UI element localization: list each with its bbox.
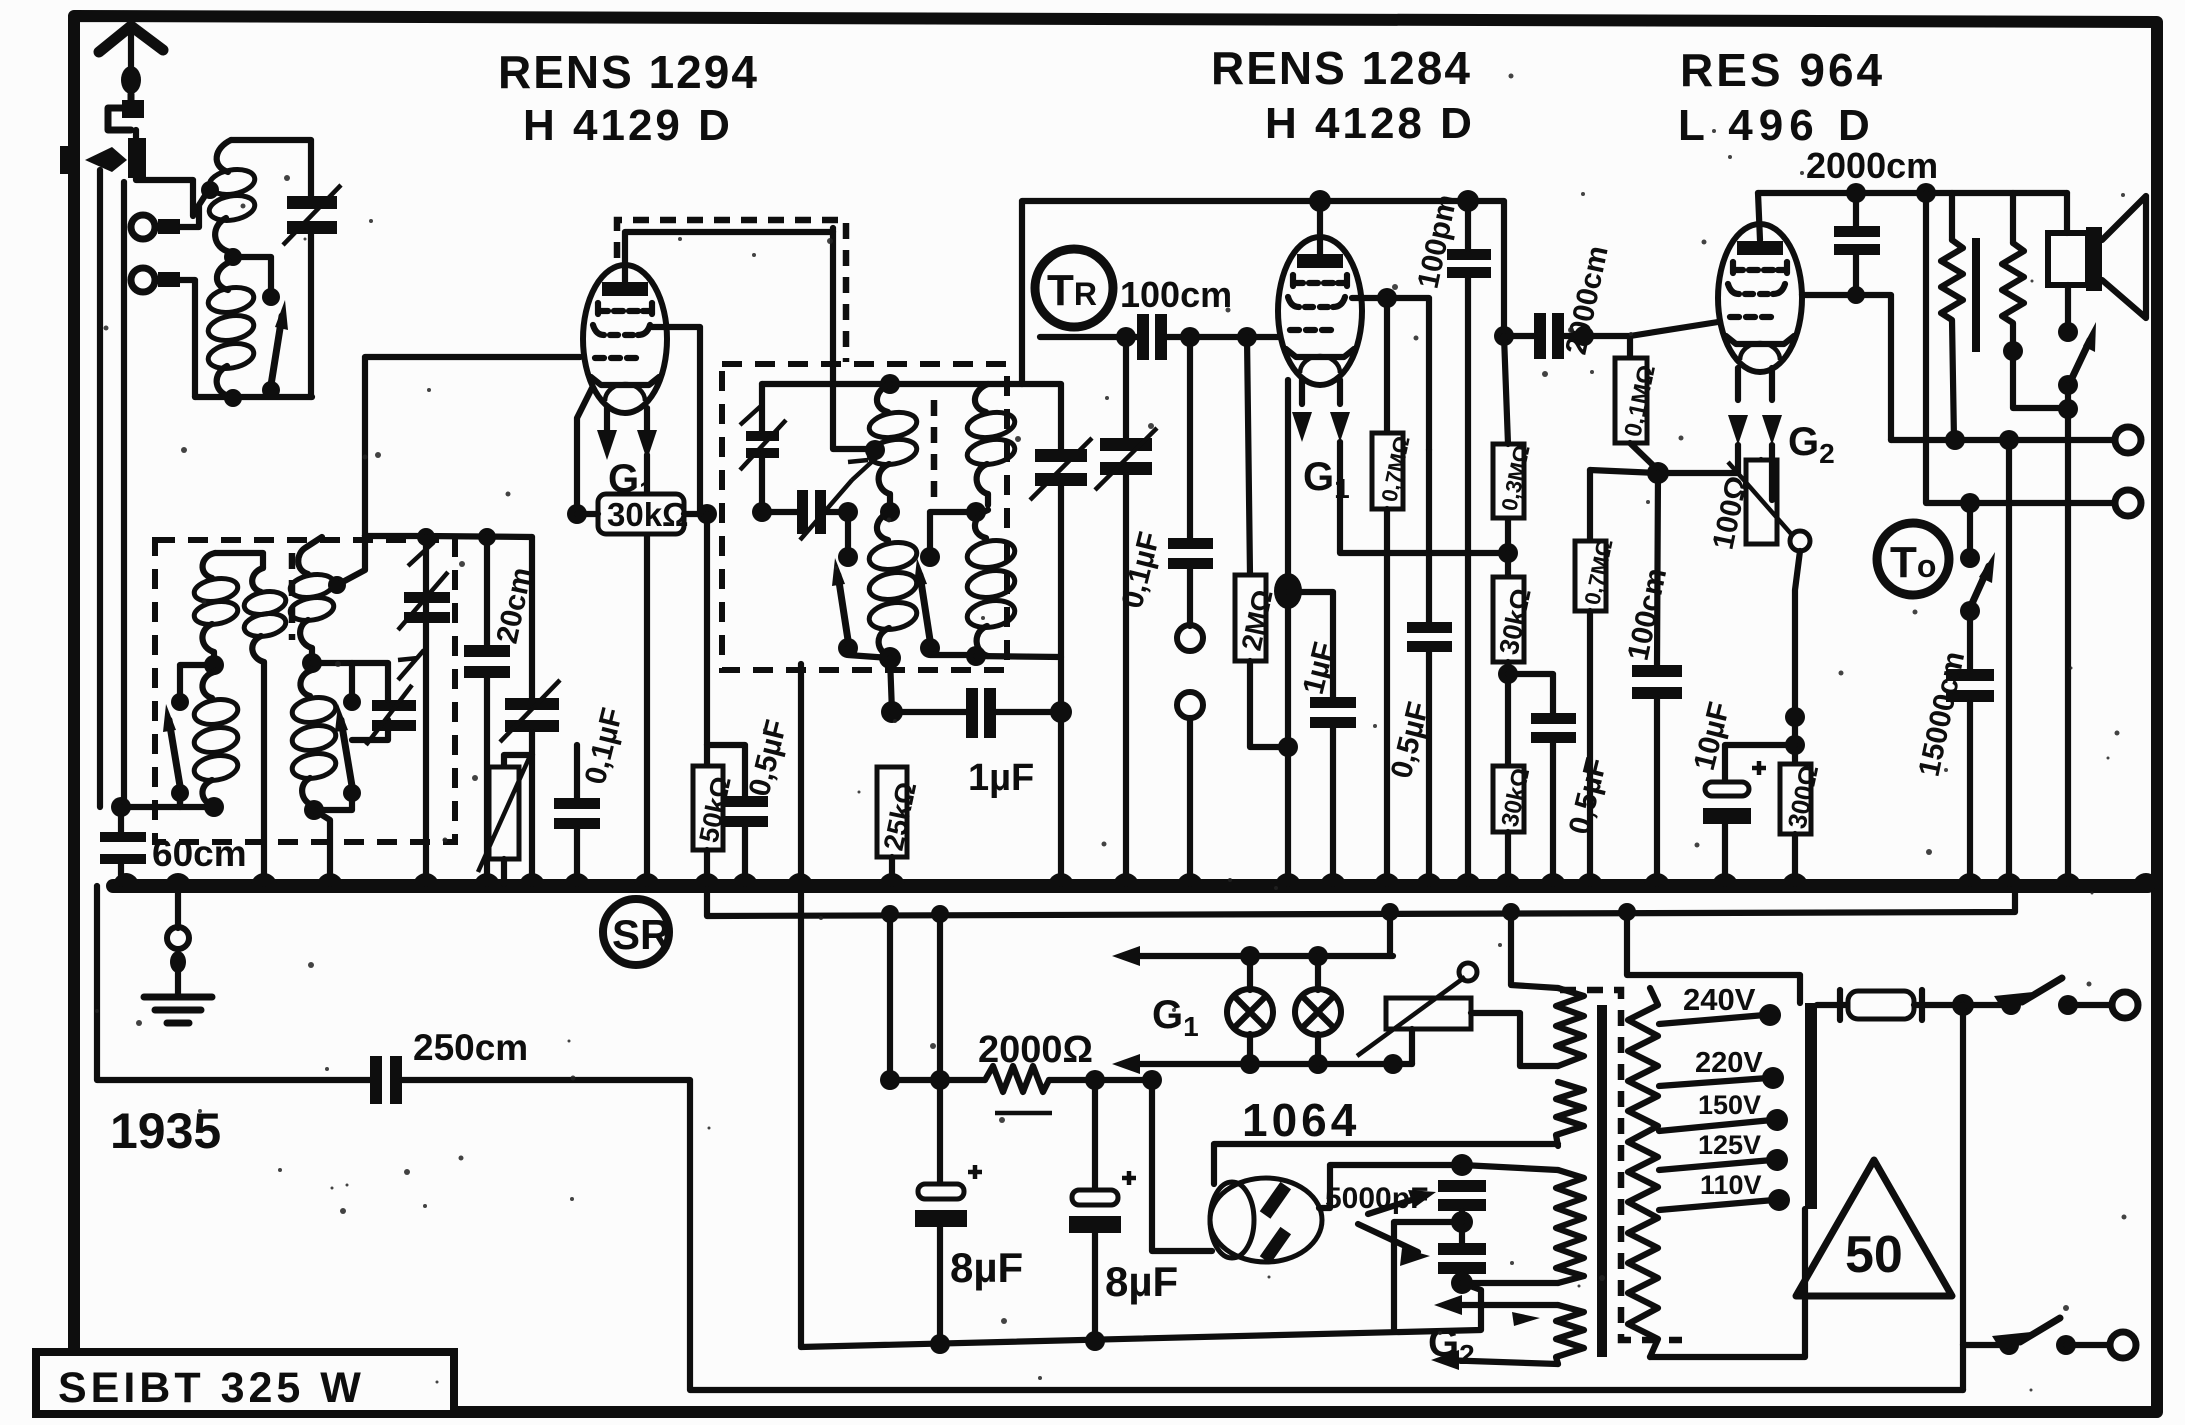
capacitor 0,1uF (tube1 cathode) [554, 745, 600, 884]
resistor 2MOhm [1235, 337, 1288, 747]
node L4 bottom [304, 800, 324, 820]
electrolytic 10uF [1703, 745, 1795, 884]
title label box SEIBT 325 W [36, 1352, 454, 1414]
output choke winding b [2002, 193, 2068, 408]
coil L6 lower [965, 510, 1017, 656]
node grid line V2 b [1237, 327, 1257, 347]
tap 110V [1659, 1170, 1790, 1211]
svg-text:1µF: 1µF [968, 757, 1034, 799]
heater wire top with arrow [1112, 946, 1393, 966]
label To [1877, 523, 1949, 595]
wire 1uF right to bus [1058, 712, 1064, 884]
capacitor 15000cm [1946, 669, 1994, 884]
wire L3 bottom to chassis [204, 797, 224, 817]
rectifier cathode wire [1152, 1080, 1212, 1251]
node L6 bottom [966, 646, 986, 666]
resistor 30kOhm (V1 anode) [577, 494, 700, 534]
node L5 bottom [879, 647, 901, 669]
pickup terminal 1 [1891, 427, 2141, 453]
node gang b top [1116, 327, 1136, 347]
dial lamp 1 [1227, 956, 1273, 1064]
svg-text:2000Ω: 2000Ω [978, 1029, 1093, 1071]
node trimmer right [838, 502, 858, 522]
tube V1 cathode lead left [577, 388, 592, 514]
capacitor 100cm (V3 grid) [1632, 473, 1682, 884]
resistor 2000 Ohm (filter) [890, 1066, 1152, 1113]
tube V3 grid lead [1630, 322, 1718, 336]
capacitor 1uF (osc) [892, 688, 1061, 738]
input coil L1 lower [206, 262, 255, 397]
capacitor 5000pF upper [1438, 1180, 1486, 1243]
oscillator padder variable cap [740, 384, 786, 512]
switch band filter II b [914, 512, 976, 658]
capacitor 2000cm (anode V3) [1834, 193, 1880, 304]
node 5000pF mid [1451, 1211, 1473, 1233]
output transformer core bar [1972, 238, 1980, 352]
feedback tap into oscillator coil [833, 228, 885, 460]
svg-text:8µF: 8µF [1105, 1258, 1178, 1305]
bus junction bumps [113, 873, 2159, 886]
transformer core bar [1597, 1005, 1607, 1357]
svg-text:2000cm: 2000cm [1806, 145, 1938, 186]
wire terminal A1 to input coil [180, 191, 208, 227]
svg-text:8µF: 8µF [950, 1244, 1023, 1291]
dial lamp 2 [1295, 956, 1341, 1064]
ground bus (chassis line) [113, 879, 2148, 893]
tube V1 grid wire to band filter I [365, 357, 580, 536]
antenna terminal A2 [131, 268, 180, 292]
tube V2 heater arrows [1292, 380, 1350, 442]
tube V2 screen wire to divider [1340, 442, 1508, 553]
fuse node drop [1960, 1005, 1966, 1390]
speaker switch [2058, 285, 2096, 884]
left HT rail drop [798, 664, 804, 1347]
capacitor 5000pF lower [1438, 1243, 1486, 1283]
svg-text:1935: 1935 [110, 1103, 221, 1159]
node 5000pF bottom [1451, 1272, 1473, 1294]
capacitor 100pm [1447, 201, 1491, 884]
resistor 0,3MOhm [1493, 336, 1535, 553]
svg-text:150V: 150V [1698, 1090, 1761, 1120]
variable capacitor top right of box A [398, 542, 450, 630]
svg-text:50: 50 [1845, 1226, 1903, 1284]
wire antenna return into band filter [121, 795, 180, 807]
node coil junction [224, 248, 242, 266]
electrolytic 8uF (second) [1069, 1080, 1136, 1341]
coil tap wire to switch chain [195, 257, 312, 407]
node 1uF right [1050, 701, 1072, 723]
capacitor 0,5uF (V2 anode) [1407, 450, 1452, 884]
tube V2 top cap lead [1317, 201, 1323, 254]
mains switch top [1963, 978, 2138, 1018]
node L2 junction [204, 655, 224, 675]
switch band filter I [163, 665, 214, 807]
tap 240V [1659, 982, 1781, 1026]
capacitor 250cm [97, 886, 1963, 1390]
capacitor 0,5uF (divider) [1508, 674, 1576, 884]
dashed coupling separator band filter II [931, 400, 938, 500]
tube V3 cathode arrows [1728, 368, 1782, 445]
band filter I shield (dashed box) [155, 540, 455, 842]
IF transformer feed line [1022, 201, 1504, 384]
rectified supply left node [880, 905, 900, 1090]
electrolytic 8uF (first) [915, 1165, 982, 1344]
tube V2 RENS1284 envelope [1278, 237, 1362, 385]
svg-text:110V: 110V [1700, 1170, 1762, 1200]
heater wire bottom with arrow [1112, 1054, 1412, 1074]
tube V3 RES964 envelope [1718, 224, 1802, 372]
resistor 30kOhm (divider lower) [1493, 766, 1535, 884]
trimmer series cap band filter II [752, 458, 876, 540]
spark gap arrester [60, 94, 146, 178]
node mains switch [1952, 994, 1974, 1016]
svg-text:RENS 1294: RENS 1294 [498, 46, 759, 98]
node grid V3 [1574, 326, 1594, 346]
svg-text:RENS 1284: RENS 1284 [1211, 42, 1472, 94]
HT return wire [801, 1283, 1481, 1354]
mark triangle 50 Hz [1796, 1160, 1952, 1296]
transformer core dashed shield [1560, 990, 1682, 1340]
tube V1 RENS1294 envelope [583, 265, 667, 413]
wire L5 bottom to 25k chain [890, 658, 892, 712]
transformer primary winding W1 [1556, 988, 1584, 1066]
capacitor 0,5uF (screen V1) [707, 745, 768, 884]
wire top of band filter II [762, 381, 1022, 387]
variable capacitor main tuning [500, 537, 560, 884]
heater wire G2 top arrow [1434, 1295, 1558, 1315]
svg-text:220V: 220V [1695, 1047, 1763, 1079]
band filter I coil L4 upper [288, 536, 365, 660]
resistor 50kOhm [693, 514, 737, 884]
transformer winding W3 (rectifier heater) [1556, 1170, 1584, 1283]
svg-text:125V: 125V [1698, 1130, 1761, 1160]
heater wire G2 bottom arrow [1431, 1312, 1558, 1370]
resistor 25kOhm [877, 767, 922, 884]
chassis line junction dots [0, 0, 1, 1]
svg-text:250cm: 250cm [413, 1027, 528, 1068]
transformer primary feed [1502, 903, 1558, 988]
tube V1 top cap lead [625, 232, 833, 282]
svg-text:SEIBT 325 W: SEIBT 325 W [58, 1364, 365, 1412]
band filter I coil L2a [192, 553, 263, 660]
wires 5000pF to winding taps [1394, 1165, 1558, 1330]
rectifier tube 1064 [1210, 1178, 1322, 1264]
node grid network V3 [1647, 462, 1669, 484]
transformer secondary winding [1628, 988, 1658, 1357]
ground electrode [144, 886, 212, 1023]
tube label RES 964 / L 496 D [1678, 44, 1885, 150]
tube label RENS 1294 / H 4129 D [498, 46, 759, 150]
wire antenna to terminals [124, 130, 193, 805]
variable capacitor gang a (below TR) [1022, 384, 1092, 657]
coil L6 upper [965, 384, 1016, 505]
label 5000pF with arrows [1325, 1182, 1436, 1266]
node 5000pF top [1451, 1154, 1473, 1176]
transformer winding W4 (heaters) [1556, 1305, 1584, 1364]
input coil L1 upper [207, 140, 256, 252]
chassis return line (second line below bus) [707, 886, 2015, 916]
capacitor 100cm (IF coupling) [1040, 314, 1279, 360]
tube V3 anode wire [1802, 295, 1891, 440]
variable capacitor C ant [283, 185, 341, 397]
node screen divider [1498, 543, 1518, 563]
mains feed from chassis line [1627, 912, 1800, 1003]
heater rheostat [1357, 903, 1558, 1066]
wire coil top to tuning cap [231, 140, 311, 196]
oscillator coil L5 upper [867, 374, 918, 512]
tap 220V [1659, 1047, 1784, 1089]
label TR [1035, 249, 1113, 327]
resistor 0,1MOhm [1615, 336, 1661, 470]
resistor 0,7MOhm (grid leak V3) [1575, 470, 1618, 884]
dashed feedback line above V1 [617, 220, 846, 362]
svg-text:H 4128 D: H 4128 D [1265, 99, 1475, 148]
tube V2 anode wire [1352, 298, 1429, 450]
trimmer capacitor band filter I [352, 650, 424, 745]
tap 125V [1659, 1130, 1788, 1171]
tube label RENS 1284 / H 4128 D [1211, 42, 1475, 148]
wire grid network [1590, 470, 1738, 473]
capacitor 2000cm (AF coupling) [1494, 313, 1630, 359]
tap 150V [1659, 1090, 1788, 1131]
mains selector bar [1805, 1003, 1817, 1209]
wire screen feed V1 [652, 327, 700, 514]
band filter I coil L2b [242, 568, 287, 884]
node top line V2 [1309, 190, 1331, 212]
oscillator section label SR [603, 899, 670, 965]
node L4 mid [302, 653, 322, 673]
node 30k right [697, 504, 717, 524]
antenna [99, 26, 163, 94]
resistor 0,7MOhm (V2 anode load) [1372, 288, 1415, 884]
tube V1 lead right to bus [644, 455, 650, 884]
antenna terminal A1 [131, 215, 180, 239]
mains switch bottom [1963, 1318, 2136, 1358]
node 1uF left [881, 701, 903, 723]
node divider mid [1498, 664, 1518, 684]
output choke winding a [1941, 193, 1963, 440]
switch band filter II a [832, 512, 890, 658]
svg-text:60cm: 60cm [152, 833, 247, 874]
gramophone switch chain [1168, 337, 1213, 884]
resistor 30kOhm (divider upper) [1493, 553, 1537, 766]
svg-text:240V: 240V [1683, 982, 1756, 1017]
band filter I dashed coupling separator [289, 553, 296, 640]
tube V1 heater arrows [597, 408, 657, 460]
band filter II shield (dashed box) [722, 364, 1007, 670]
transformer secondary bottom wire [1650, 1209, 1805, 1357]
svg-text:RES 964: RES 964 [1680, 44, 1885, 96]
svg-text:30kΩ: 30kΩ [607, 496, 689, 533]
svg-text:100cm: 100cm [1120, 274, 1232, 315]
band filter I lower coil L3a [192, 672, 239, 807]
grid feed vertical from band filter I [365, 528, 532, 884]
tube V2 cathode chain with blob [1274, 380, 1302, 884]
wire L6 bottom to 1uF node [976, 656, 1061, 712]
capacitor 1uF (V2 cathode) [1288, 592, 1356, 884]
wire L4 bottom down to bus [314, 810, 330, 884]
pickup terminal 2 [1926, 193, 2141, 516]
svg-text:H 4129 D: H 4129 D [523, 101, 733, 150]
band filter I coil L4 lower [290, 670, 337, 810]
node rectifier feed [1142, 1070, 1162, 1090]
variable capacitor gang b [1095, 337, 1157, 884]
output node line [1758, 183, 2067, 203]
node grid line V2 a [1180, 327, 1200, 347]
loudspeaker [2048, 193, 2146, 318]
node filter mid [1085, 1070, 1105, 1090]
wire terminal A2 down left feeder [100, 170, 195, 807]
capacitor 20cm [464, 528, 510, 884]
transformer winding W2 (HT) [1556, 1082, 1584, 1146]
rectifier output loop [1319, 1165, 1462, 1208]
wire G2 bias chain [1772, 445, 1805, 764]
potentiometer 100 Ohm [1728, 445, 1810, 551]
node 100pm [1457, 190, 1479, 212]
tube V3 top cap lead [1758, 193, 1760, 240]
node 30k left [567, 504, 587, 524]
rheostat (variable resistor) to bus [478, 755, 532, 884]
fuse [1817, 990, 1958, 1020]
oscillator coil L5 lower [867, 512, 919, 656]
wire divider to output stage [2006, 440, 2012, 884]
rectifier anode feed [1214, 1144, 1558, 1184]
filter cap chain drop [930, 905, 950, 1184]
node input coil tap [201, 181, 219, 199]
svg-text:SR: SR [612, 911, 670, 958]
switch band filter I b [312, 663, 361, 810]
svg-text:L 496 D: L 496 D [1678, 101, 1876, 150]
node L6 mid [966, 502, 986, 522]
capacitor 60cm [100, 807, 146, 884]
svg-text:1064: 1064 [1242, 1094, 1360, 1146]
node L5 mid [880, 502, 900, 522]
node antenna return [111, 797, 131, 817]
tone switch [1960, 503, 1995, 669]
resistor 300 Ohm [1780, 762, 1824, 884]
